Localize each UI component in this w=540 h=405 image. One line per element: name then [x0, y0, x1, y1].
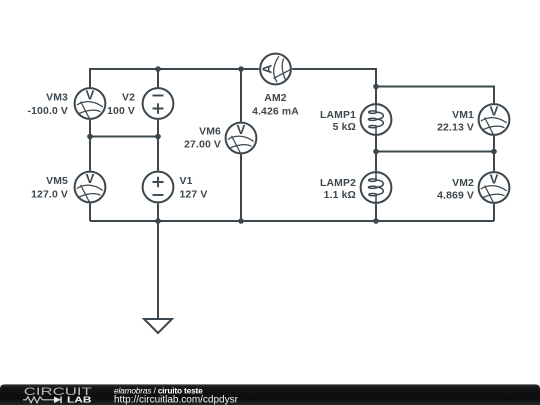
wire ground stem [157, 221, 159, 319]
svg-text:V: V [237, 122, 246, 137]
svg-text:4.869 V: 4.869 V [437, 190, 474, 201]
wire VM6 bottom stub [240, 154, 242, 221]
voltmeter VM6 [226, 122, 257, 153]
wire VM3 bottom to VM5 top [89, 120, 91, 171]
wire bottom rail [90, 220, 494, 222]
svg-text:4.426 mA: 4.426 mA [252, 106, 299, 117]
wire top from VM3 to AM2 left [90, 69, 259, 88]
svg-text:LAB: LAB [67, 395, 92, 405]
source V2 [143, 88, 174, 119]
svg-text:AM2: AM2 [264, 93, 286, 104]
svg-text:V1: V1 [180, 176, 193, 187]
wire VM1 bottom stub [493, 136, 495, 171]
svg-text:V2: V2 [122, 92, 135, 103]
wire LAMP1 bottom stub [375, 136, 377, 171]
svg-text:VM2: VM2 [452, 178, 474, 189]
voltmeter VM1 [479, 104, 510, 135]
voltmeter VM5 [75, 171, 106, 202]
svg-text:http://circuitlab.com/cdpdysr: http://circuitlab.com/cdpdysr [114, 394, 239, 405]
wire top from AM2 right to LAMP1 column [292, 69, 376, 103]
wire LAMP2 bottom stub [375, 204, 377, 221]
svg-text:-100.0 V: -100.0 V [28, 106, 68, 117]
svg-text:100 V: 100 V [107, 106, 135, 117]
wire VM2 bottom stub [493, 204, 495, 221]
svg-text:V: V [86, 88, 95, 103]
svg-text:127.0 V: 127.0 V [31, 190, 68, 201]
wire mid row VM3-V2 [90, 136, 158, 138]
logo resistor zigzag and diode [23, 397, 54, 403]
svg-text:LAMP1: LAMP1 [320, 110, 356, 121]
node junction top V2 [155, 66, 161, 72]
ammeter AM2 [260, 54, 291, 85]
wire VM6 top stub [240, 69, 242, 122]
svg-text:127 V: 127 V [180, 190, 208, 201]
voltmeter VM3 [75, 88, 106, 119]
node junction VM1 branch [373, 84, 379, 90]
lamp LAMP2 [361, 171, 392, 204]
svg-text:V: V [86, 171, 95, 186]
svg-text:VM1: VM1 [452, 110, 474, 121]
node junction bottom ground [155, 218, 161, 224]
svg-text:A: A [260, 64, 275, 74]
node junction mid V2 [155, 134, 161, 140]
wire V1 bottom stub [157, 203, 159, 221]
node junction mid LAMP1 [373, 149, 379, 155]
node junction top VM6 [238, 66, 244, 72]
svg-text:VM6: VM6 [199, 126, 221, 137]
svg-text:VM5: VM5 [46, 176, 68, 187]
wire V2 top stub [157, 69, 159, 88]
wire branch to VM1 [376, 87, 494, 104]
node junction mid VM3 [87, 134, 93, 140]
svg-text:27.00 V: 27.00 V [184, 139, 221, 150]
svg-text:1.1 kΩ: 1.1 kΩ [324, 190, 356, 201]
svg-text:5 kΩ: 5 kΩ [333, 122, 356, 133]
svg-text:22.13 V: 22.13 V [437, 122, 474, 133]
source V1 [143, 172, 174, 203]
logo diode [54, 397, 61, 404]
wire VM5 bottom stub [89, 203, 91, 221]
svg-text:LAMP2: LAMP2 [320, 178, 356, 189]
svg-text:VM3: VM3 [46, 92, 68, 103]
svg-text:V: V [490, 104, 499, 119]
lamp LAMP1 [361, 103, 392, 136]
wire V2 bottom to V1 top [157, 120, 159, 171]
svg-text:V: V [490, 172, 499, 187]
ground [144, 319, 172, 333]
wire mid row LAMP1-VM1 [376, 151, 494, 153]
node junction bottom VM6 [238, 218, 244, 224]
node junction bottom LAMP2 [373, 218, 379, 224]
voltmeter VM2 [479, 172, 510, 203]
node junction mid VM1 [491, 149, 497, 155]
